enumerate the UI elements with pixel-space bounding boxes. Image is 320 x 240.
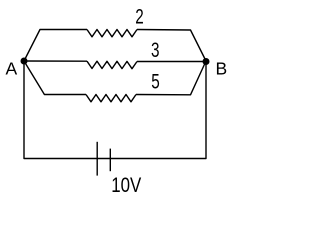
svg-text:3: 3 bbox=[151, 39, 160, 62]
svg-text:2: 2 bbox=[135, 5, 144, 28]
wire: middle branch left (A to resistor R2) bbox=[24, 60, 87, 62]
svg-text:B: B bbox=[215, 58, 227, 78]
svg-text:A: A bbox=[5, 59, 17, 79]
resistor R1 (2 ohm) zigzag bbox=[87, 30, 137, 37]
svg-text:10V: 10V bbox=[111, 174, 141, 197]
wire: top branch left (A to resistor R1) bbox=[24, 30, 87, 62]
circuit schematic: three parallel resistors between nodes A and B with 10V battery bbox=[0, 0, 235, 201]
node B junction dot bbox=[203, 58, 210, 65]
resistor R2 (3 ohm) zigzag bbox=[87, 61, 137, 68]
battery V1 long plate bbox=[96, 142, 98, 176]
svg-text:5: 5 bbox=[151, 70, 160, 93]
wire: middle branch right (R2 to B) bbox=[137, 61, 206, 63]
battery V1 short plate bbox=[109, 149, 111, 172]
resistor R3 (5 ohm) zigzag bbox=[86, 95, 136, 102]
wire: lower branch left (A to resistor R3) bbox=[24, 61, 86, 95]
node A junction dot bbox=[21, 58, 28, 65]
wire: bottom loop A-down-across-up-B bbox=[24, 61, 206, 159]
wire: top branch right (R1 to B) bbox=[137, 30, 206, 62]
wire: lower branch right (R3 to B) bbox=[136, 61, 206, 95]
